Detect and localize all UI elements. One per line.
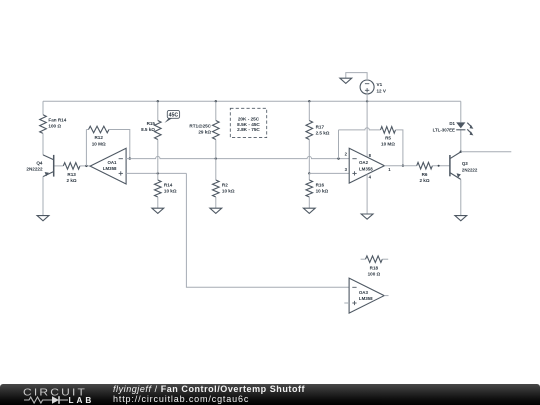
svg-text:2N2222: 2N2222 (462, 167, 478, 172)
node R6-Q3 wire endpoint (438, 165, 440, 167)
svg-text:45C: 45C (169, 112, 179, 118)
CircuitLab logo (23, 385, 98, 404)
wire OA1 output up to R12 (85, 130, 87, 166)
footer title text (113, 385, 305, 404)
wire RT1 top stem (215, 101, 217, 120)
wire Q3 emitter to ground (460, 179, 462, 215)
wire pin3 node to OA2 (309, 172, 349, 174)
op-amp OA2 LM358 (345, 148, 392, 183)
junction top rail / RT1 (215, 100, 217, 102)
svg-text:R16: R16 (316, 182, 325, 187)
wire V1 to rail and OA2 pin8 (366, 94, 368, 157)
wire R14 to ground (157, 197, 159, 208)
junction R12 / OA1 minus (129, 157, 131, 159)
ground below R16 (303, 208, 315, 213)
wire Q3 collector to LED (460, 130, 462, 152)
wire R15 to node A (157, 140, 159, 174)
wire OA3 plus stub (344, 302, 349, 304)
junction Q3 collector / output wire (460, 151, 462, 153)
wire Fan R14 top stem (42, 101, 44, 115)
op-amp OA3 LM358 (349, 278, 384, 313)
wire R15 top stem (157, 101, 159, 120)
wire collector to right edge (461, 151, 512, 153)
svg-text:R2: R2 (222, 182, 228, 187)
svg-text:29 kΩ: 29 kΩ (198, 130, 211, 135)
ground below Q3 (455, 216, 467, 221)
svg-text:8: 8 (369, 153, 372, 158)
junction node B / RT1-R2 (215, 157, 217, 159)
svg-text:R13: R13 (67, 172, 76, 177)
svg-text:Q3: Q3 (462, 161, 468, 166)
svg-text:OA2: OA2 (359, 160, 369, 165)
wire V1 top to ground (346, 73, 367, 80)
thermistor RT1 29 kohm (189, 121, 219, 140)
svg-text:LM358: LM358 (103, 166, 117, 171)
wire OA2 pin2 feedback riser (338, 130, 340, 159)
voltage source V1 12V (360, 80, 387, 94)
op-amp OA1 LM358 (90, 148, 126, 184)
wire RT1 to node B (215, 140, 217, 159)
svg-text:4: 4 (369, 174, 372, 179)
svg-text:Q4: Q4 (36, 160, 43, 165)
svg-text:R15: R15 (147, 121, 156, 126)
resistor R17 2.5 kohm (306, 121, 330, 140)
junction node B / R5 feedback (337, 157, 339, 159)
svg-text:2.5 kΩ: 2.5 kΩ (316, 131, 330, 136)
wire R5 right down to output (396, 130, 403, 166)
resistor R14 10 kohm (155, 180, 177, 197)
svg-text:LM358: LM358 (359, 296, 373, 301)
junction R17-R16 / OA2 pin3 (308, 172, 310, 174)
svg-text:2: 2 (345, 152, 348, 157)
svg-text:R18: R18 (370, 265, 379, 270)
node OA1 output junction (85, 165, 87, 167)
wire R13 to OA1 output node (80, 165, 90, 167)
svg-text:100 Ω: 100 Ω (368, 272, 381, 277)
svg-text:R14: R14 (164, 182, 173, 187)
svg-text:10 MΩ: 10 MΩ (92, 141, 106, 146)
svg-text:OA1: OA1 (107, 160, 117, 165)
svg-text:OA3: OA3 (359, 290, 369, 295)
svg-text:10 kΩ: 10 kΩ (164, 189, 177, 194)
wire OA2 output to R6 (384, 165, 416, 167)
resistor R18 100 ohm (361, 256, 389, 277)
LED D1 LTL-307EE (433, 121, 474, 135)
wire R17 to pin3 node (308, 140, 310, 174)
wire rail to LED anode (460, 101, 462, 122)
transistor Q3 2N2222 (450, 152, 478, 180)
svg-text:100 Ω: 100 Ω (48, 124, 61, 129)
svg-text:2.8K - 75C: 2.8K - 75C (237, 127, 260, 132)
svg-text:R5: R5 (385, 135, 391, 140)
wire OA1 plus to node A (126, 172, 186, 174)
svg-text:10 kΩ: 10 kΩ (316, 189, 329, 194)
wire R12 to OA1 inverting input (109, 130, 130, 159)
resistor R13 2 kohm (63, 163, 80, 183)
wire R14 top stem (157, 173, 159, 180)
svg-text:8.5 kΩ: 8.5 kΩ (141, 127, 155, 132)
resistor R14 (Fan) 100 ohm (40, 115, 67, 134)
resistor R12 10 Mohm (86, 126, 109, 146)
resistor R15 8.5 kohm (141, 121, 161, 140)
resistor R2 10 kohm (213, 180, 235, 197)
note box thermistor values (230, 108, 266, 137)
junction node A / R15-R14 (157, 172, 159, 174)
svg-text:LTL-307EE: LTL-307EE (433, 127, 455, 132)
junction top rail / R15 (157, 100, 159, 102)
svg-text:3: 3 (345, 167, 348, 172)
wire R16 top stem (308, 173, 310, 180)
wire R16 to ground (308, 197, 310, 208)
ground below R2 (210, 208, 222, 213)
wire R5 left (hop over V1 line) (339, 128, 381, 130)
ground below OA2 (361, 214, 373, 219)
wire node B rail (thermistor tap) (126, 156, 349, 158)
wire +12V top rail (43, 100, 461, 102)
svg-text:LM358: LM358 (359, 166, 373, 171)
svg-text:V1: V1 (377, 82, 383, 87)
svg-text:R17: R17 (316, 124, 325, 129)
ground below Q4 (37, 216, 49, 221)
svg-text:10 kΩ: 10 kΩ (222, 189, 235, 194)
svg-text:20K - 25C: 20K - 25C (238, 116, 260, 121)
wire Q4 emitter to ground (42, 177, 44, 216)
junction top rail / R17 (308, 100, 310, 102)
callout 45C (165, 110, 180, 123)
ground below R14 (152, 208, 164, 213)
resistor R16 10 kohm (306, 180, 329, 197)
svg-text:1: 1 (388, 167, 391, 172)
junction top rail / V1 (366, 100, 368, 102)
junction OA2 output / R5 (402, 165, 404, 167)
svg-text:R6: R6 (422, 172, 428, 177)
wire OA2 pin4 to ground (366, 174, 368, 214)
svg-text:RT1@25C: RT1@25C (189, 124, 211, 129)
wire R2 to ground (215, 197, 217, 208)
wire Fan R14 to Q4 collector (42, 133, 44, 155)
svg-text:10 MΩ: 10 MΩ (381, 142, 395, 147)
svg-text:2 kΩ: 2 kΩ (419, 178, 429, 183)
resistor R5 10 Mohm (381, 127, 396, 147)
svg-text:R12: R12 (94, 135, 103, 140)
wire OA3 output stub (384, 295, 388, 297)
svg-text:Fan R14: Fan R14 (48, 118, 66, 123)
svg-text:2N2222: 2N2222 (26, 167, 43, 172)
svg-text:D1: D1 (449, 121, 455, 126)
resistor R6 2 kohm (417, 162, 433, 183)
transistor Q4 2N2222 (26, 155, 53, 177)
wire node A down to OA3 minus (186, 173, 349, 287)
ground above V1 (340, 78, 352, 83)
svg-text:2 kΩ: 2 kΩ (67, 178, 77, 183)
wire R2 top stem (215, 159, 217, 180)
svg-text:12 V: 12 V (377, 88, 387, 93)
footer bar (0, 384, 540, 405)
wire R17 top stem (308, 101, 310, 120)
wire R6 to Q3 base (432, 165, 450, 167)
wire Q4 base to R13 (55, 165, 64, 167)
svg-text:8.5K - 45C: 8.5K - 45C (237, 122, 260, 127)
